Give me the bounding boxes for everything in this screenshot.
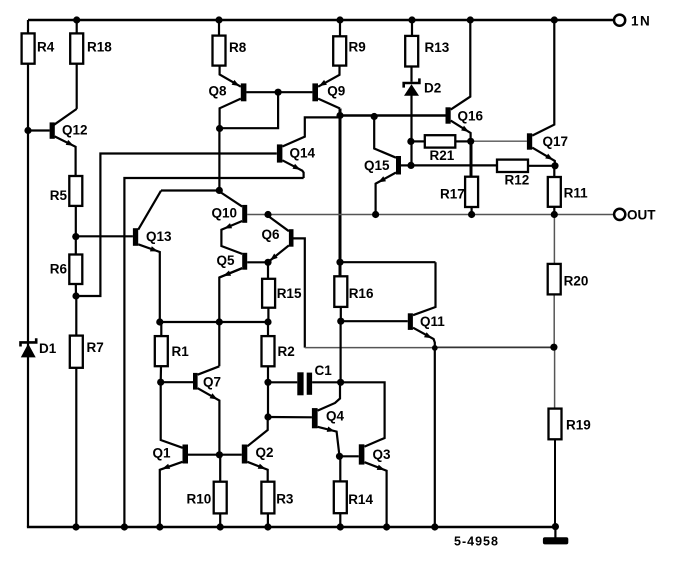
- svg-text:Q15: Q15: [364, 158, 390, 173]
- resistor R9: [333, 36, 366, 65]
- svg-text:R8: R8: [229, 40, 247, 55]
- svg-text:R14: R14: [348, 492, 373, 507]
- junction node ground terminal: [552, 523, 559, 530]
- junction node Q12 base on left rail: [24, 127, 31, 134]
- wire Q13 base: [76, 235, 133, 237]
- wire R15 bottom: [267, 308, 269, 322]
- wire R19 bottom to ground bus: [554, 439, 556, 527]
- wire R7 bottom to ground bus: [75, 368, 77, 527]
- svg-text:R18: R18: [87, 40, 112, 55]
- wire Q2 collector up: [247, 417, 267, 446]
- resistor R10: [187, 482, 227, 514]
- wire R18 top lead: [76, 20, 78, 33]
- wire Q3 base: [340, 455, 359, 457]
- wire Q12 base from left rail: [28, 129, 50, 131]
- wire Q2 emitter to R3: [247, 462, 267, 482]
- wire Q6 base down: [293, 238, 304, 347]
- resistor R6: [50, 255, 83, 285]
- junction node Q13 emitter / R1 top: [156, 318, 163, 325]
- wire Q11 emitter to ground bus: [413, 328, 435, 527]
- junction node Q15 base / R12 wire: [407, 162, 414, 169]
- wire Q6 base line to Q11 emitter node: [305, 347, 435, 349]
- svg-text:Q10: Q10: [212, 206, 238, 221]
- junction node R6/R7/Q14 base: [72, 292, 79, 299]
- junction node Q15 emitter on OUT rail: [372, 211, 379, 218]
- transistor Q6: [262, 227, 294, 260]
- wire Q15 base: [401, 164, 411, 166]
- wire R1 bottom to Q1 collector: [161, 366, 183, 448]
- junction node Q11 emitter on ground bus: [431, 523, 438, 530]
- svg-text:Q9: Q9: [327, 83, 345, 98]
- diode D2 (zener): [404, 78, 442, 95]
- transistor Q10: [212, 205, 248, 229]
- svg-text:Q5: Q5: [217, 253, 236, 268]
- svg-text:R16: R16: [349, 286, 374, 301]
- junction node R16 top / Q11 collector wire: [336, 259, 343, 266]
- bottom ground bus: [27, 526, 556, 528]
- junction node R8 top on IN bus: [215, 16, 222, 23]
- junction node Q3 emitter on ground bus: [383, 523, 390, 530]
- wire R13 top lead: [411, 20, 413, 36]
- wire node row y322: [160, 321, 268, 323]
- wire R6 bottom: [75, 284, 77, 296]
- svg-text:R21: R21: [430, 148, 455, 163]
- transistor Q4: [312, 408, 345, 432]
- svg-text:R7: R7: [87, 340, 104, 355]
- wire Q8 base to Q9 base: [246, 91, 312, 93]
- wire to Q10 collector: [219, 192, 242, 207]
- svg-text:R5: R5: [50, 188, 68, 203]
- svg-text:Q17: Q17: [543, 134, 569, 149]
- wire Q11 collector down: [413, 262, 436, 315]
- svg-text:Q2: Q2: [256, 445, 274, 460]
- transistor Q14: [277, 144, 316, 169]
- wire node to R11 top: [553, 166, 555, 177]
- wire C1 node down: [267, 382, 269, 417]
- wire Q4 emitter down: [318, 427, 340, 457]
- svg-text:R15: R15: [277, 286, 302, 301]
- junction node R9 top on IN bus: [336, 16, 343, 23]
- junction node Q1 emitter on ground bus: [156, 523, 163, 530]
- resistor R7: [70, 336, 104, 368]
- wire Q1 emitter to ground bus: [160, 462, 183, 527]
- wire R2 top lead: [267, 322, 269, 336]
- wire R1 top lead: [160, 322, 162, 336]
- wire Q9 collector diagonal: [318, 99, 340, 109]
- svg-text:OUT: OUT: [627, 208, 656, 223]
- wire to C1 left plate: [268, 381, 297, 383]
- wire Q15 emitter to OUT rail: [376, 173, 396, 215]
- wire Q16 emitter node to Q17 base: [471, 140, 527, 142]
- resistor R16: [334, 276, 374, 307]
- svg-text:Q11: Q11: [420, 314, 445, 329]
- wire R2 bottom: [267, 366, 269, 382]
- transistor Q17: [527, 133, 568, 160]
- wire node to R6 top: [75, 237, 77, 255]
- svg-text:R6: R6: [50, 262, 68, 277]
- wire D2 anode down to Q15 base node: [410, 95, 412, 165]
- junction node R3 on ground bus: [264, 523, 271, 530]
- svg-text:Q14: Q14: [290, 145, 316, 160]
- capacitor C1: [297, 363, 332, 395]
- wire Q11 emitter node to divider node: [435, 346, 554, 348]
- junction node R11/R20 on OUT rail: [551, 211, 558, 218]
- wire R12 right lead to Q17 emitter node: [528, 165, 555, 167]
- resistor R1: [155, 336, 189, 366]
- wire R21 right lead: [455, 140, 470, 142]
- wire R8 top lead: [218, 20, 220, 36]
- junction node R1 bottom / Q7 base: [157, 379, 164, 386]
- svg-text:R17: R17: [440, 187, 465, 202]
- wire node to R7 top: [75, 296, 77, 336]
- svg-text:R4: R4: [37, 40, 55, 55]
- junction node R20/R19 divider tap: [550, 344, 557, 351]
- ground symbol: [543, 537, 568, 544]
- junction node Q17 collector on IN bus: [551, 16, 558, 23]
- svg-text:R1: R1: [172, 344, 190, 359]
- wire divider node to R19 top: [554, 347, 556, 408]
- svg-text:1N: 1N: [631, 13, 651, 28]
- resistor R2: [262, 336, 295, 366]
- junction node Q14 emitter on ground bus: [121, 523, 128, 530]
- wire C1 right plate to node: [312, 381, 341, 383]
- resistor R20: [548, 264, 589, 295]
- resistor R11: [548, 177, 588, 207]
- wire Q12 emitter to R5: [55, 136, 76, 176]
- wire R6/R7 node to Q14 base: [76, 154, 277, 297]
- wire R9 bottom to Q9 emitter: [318, 66, 339, 87]
- junction node R16 bottom / Q11 base: [337, 318, 344, 325]
- transistor Q12: [50, 122, 88, 146]
- junction node Q15 collector tap: [371, 113, 378, 120]
- svg-text:R9: R9: [349, 40, 366, 55]
- junction node R7 on ground bus: [72, 523, 79, 530]
- transistor Q13: [133, 228, 172, 251]
- wire node to R14 top: [339, 456, 341, 481]
- wire Q16 emitter node to R17: [470, 141, 473, 176]
- svg-text:R10: R10: [187, 492, 212, 507]
- wire Q5 emitter diagonal: [219, 268, 242, 277]
- wire Q14 collector link: [282, 117, 340, 146]
- wire Q7 base: [161, 381, 193, 383]
- svg-text:C1: C1: [315, 363, 333, 378]
- resistor R4: [22, 33, 55, 63]
- junction node Q16 collector on IN bus: [467, 16, 474, 23]
- svg-text:Q7: Q7: [203, 375, 221, 390]
- svg-text:Q4: Q4: [326, 409, 345, 424]
- wire R11 bottom to OUT rail: [553, 207, 555, 215]
- wire Q8 base-collector tie: [220, 92, 279, 128]
- junction node C1 right / Q3 collector wire: [337, 379, 344, 386]
- junction node Q5 emitter / Q7 collector: [216, 318, 223, 325]
- svg-text:Q1: Q1: [153, 446, 172, 461]
- wire Q9 collector column down to R16: [339, 109, 342, 277]
- resistor R15: [262, 279, 302, 308]
- wire R10 bottom to ground bus: [219, 513, 221, 527]
- wire Q6 collector to OUT node: [268, 216, 289, 231]
- transistor Q11: [408, 313, 445, 338]
- junction node R2 bottom / C1 left: [264, 379, 271, 386]
- wire Q6 emitter diagonal: [268, 245, 289, 262]
- resistor R18: [70, 33, 112, 63]
- wire Q15 base node to R12: [411, 164, 497, 166]
- wire OUT node to R20 top: [553, 215, 555, 264]
- svg-text:Q13: Q13: [146, 229, 172, 244]
- svg-text:Q16: Q16: [458, 109, 484, 124]
- junction node Q16 emitter / R21 right: [467, 138, 474, 145]
- resistor R3: [261, 482, 294, 514]
- junction node R13 top on IN bus: [408, 16, 415, 23]
- svg-text:R13: R13: [425, 40, 450, 55]
- wire Q17 collector to IN bus: [532, 20, 554, 136]
- wire Q14 emitter diagonal: [282, 160, 303, 178]
- wire node to R10 top: [219, 455, 221, 482]
- wire Q17 emitter down: [532, 148, 555, 166]
- wire Q4 collector up: [318, 383, 340, 411]
- wire Q11 base: [340, 320, 408, 322]
- resistor R14: [334, 481, 374, 513]
- wire R21 left lead: [411, 140, 425, 142]
- transistor Q2: [242, 445, 274, 470]
- svg-text:5-4958: 5-4958: [454, 534, 499, 548]
- transistor Q5: [217, 253, 248, 276]
- wire Q3 emitter to ground bus: [365, 462, 387, 527]
- junction node R10 on ground bus: [217, 523, 224, 530]
- wire R20 bottom to divider node: [553, 294, 555, 347]
- wire ground bus to ground symbol: [554, 527, 556, 539]
- junction node Q8 collector: [216, 125, 223, 132]
- wire Q15 collector from Q16 base wire: [374, 117, 396, 158]
- resistor R12: [497, 160, 529, 188]
- wire Q7 collector diagonal: [198, 366, 220, 374]
- wire Q8 collector down: [220, 99, 241, 129]
- resistor R17: [440, 177, 478, 207]
- wire Q13 emitter down: [138, 244, 160, 322]
- wire Q16 emitter down: [451, 121, 471, 142]
- top supply bus (IN rail): [28, 19, 614, 21]
- transistor Q9: [312, 80, 345, 101]
- junction node Q5 base / Q6 emitter / R15: [264, 259, 271, 266]
- wire Q1 base to Q2 base: [188, 454, 242, 456]
- junction node Q4 emitter / Q3 base / R14 top: [336, 453, 343, 460]
- transistor Q7: [193, 373, 221, 400]
- junction node R15 bottom / R2 top: [264, 318, 271, 325]
- svg-text:R3: R3: [276, 492, 294, 507]
- wire R3 bottom to ground bus: [267, 513, 269, 527]
- wire Q14 emitter to ground bus: [124, 178, 303, 527]
- terminal OUT: [614, 208, 656, 223]
- svg-text:R11: R11: [564, 186, 589, 201]
- resistor R13: [405, 36, 450, 67]
- svg-text:Q12: Q12: [62, 122, 88, 137]
- wire Q7 emitter down: [198, 388, 220, 455]
- transistor Q8: [209, 80, 247, 101]
- junction node Q9 collector: [336, 112, 343, 119]
- svg-text:R2: R2: [278, 344, 295, 359]
- junction node R18 top on IN bus: [73, 16, 80, 23]
- resistor R21: [425, 135, 456, 163]
- wire R13 bottom to D2: [410, 67, 412, 82]
- svg-text:D2: D2: [424, 81, 441, 96]
- wire R14 bottom to ground bus: [339, 513, 341, 527]
- svg-text:R20: R20: [564, 274, 589, 289]
- svg-text:Q3: Q3: [373, 447, 392, 462]
- junction node Q8/Q9 base tie: [275, 89, 282, 96]
- transistor Q3: [359, 444, 391, 470]
- terminal IN: [614, 13, 651, 28]
- wire R16 top node to Q11 collector: [340, 261, 436, 263]
- diode D1 (zener): [21, 338, 57, 357]
- svg-text:R12: R12: [505, 173, 530, 188]
- wire R16 bottom: [340, 307, 342, 321]
- junction node Q1/Q2 base / R10 top: [216, 451, 223, 458]
- wire Q10 emitter to Q5 collector: [221, 221, 242, 254]
- wire Q12 collector diagonal: [54, 109, 77, 125]
- resistor R8: [213, 36, 247, 66]
- wire Q8 collector line down to Q10: [218, 129, 220, 191]
- wire Q9 collector to Q16 base: [340, 114, 446, 116]
- junction node Q10 base on OUT rail: [264, 211, 271, 218]
- wire Q13 collector to Q8 collector line: [161, 189, 219, 191]
- wire node to R15 top: [267, 262, 269, 279]
- junction node Q13 collector join: [216, 187, 223, 194]
- wire Q5 emitter / Q7 collector column: [219, 268, 242, 366]
- svg-text:Q6: Q6: [262, 227, 281, 242]
- wire Q13 collector diagonal: [138, 191, 161, 230]
- wire R18 bottom to Q12 collector: [76, 64, 78, 109]
- wire Q5 base to node: [247, 261, 268, 263]
- OUT rail (thin): [247, 214, 614, 216]
- junction node Q17 emitter / R12 / R11: [551, 162, 558, 169]
- wire R17 bottom to OUT rail: [471, 207, 473, 215]
- wire R5 bottom to node: [75, 206, 77, 237]
- junction node R14 on ground bus: [337, 523, 344, 530]
- left rail (from IN bus down to ground bus): [27, 20, 29, 527]
- svg-text:R19: R19: [566, 418, 591, 433]
- wire Q16 collector to IN bus: [451, 20, 471, 110]
- svg-text:Q8: Q8: [209, 83, 228, 98]
- wire R16 node down to C1 node: [340, 321, 342, 382]
- transistor Q16: [446, 107, 484, 132]
- wire R9 top lead: [339, 20, 341, 36]
- transistor Q1: [153, 445, 189, 469]
- junction node R21 left / D2: [407, 138, 414, 145]
- junction node R5/R6/Q13 base: [72, 233, 79, 240]
- wire R8 bottom to Q8 emitter: [220, 66, 241, 87]
- svg-text:D1: D1: [39, 341, 57, 356]
- resistor R19: [549, 409, 591, 440]
- resistor R5: [50, 176, 83, 206]
- junction node R17 on OUT rail: [468, 211, 475, 218]
- junction node Q4 base / Q2 collector: [264, 413, 271, 420]
- junction node Q11 emitter / divider wire: [432, 345, 438, 351]
- wire C1 node to Q3 collector: [341, 382, 385, 446]
- transistor Q15: [364, 156, 401, 182]
- wire Q4 base: [268, 416, 312, 418]
